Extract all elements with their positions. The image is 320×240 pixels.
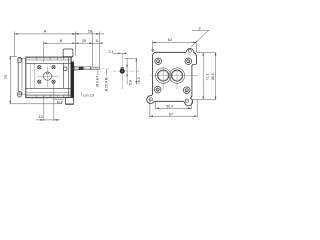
svg-text:5.8: 5.8 xyxy=(129,80,133,85)
svg-text:62: 62 xyxy=(168,37,173,42)
svg-text:50.4: 50.4 xyxy=(166,104,173,108)
svg-text:67: 67 xyxy=(169,112,173,116)
svg-text:Ø 9 H7: Ø 9 H7 xyxy=(96,76,100,87)
svg-text:A: A xyxy=(44,29,47,34)
svg-text:28: 28 xyxy=(88,29,93,34)
svg-text:con 1:8: con 1:8 xyxy=(83,93,94,97)
svg-text:70: 70 xyxy=(3,74,8,79)
svg-text:71.5: 71.5 xyxy=(206,74,210,81)
svg-text:B: B xyxy=(60,38,63,43)
svg-text:16.2: 16.2 xyxy=(137,77,141,84)
svg-text:12: 12 xyxy=(38,114,43,119)
svg-text:Ø 25.4 f8: Ø 25.4 f8 xyxy=(104,77,108,91)
svg-text:86.5: 86.5 xyxy=(211,73,215,80)
svg-text:M 8: M 8 xyxy=(57,101,63,105)
svg-text:20: 20 xyxy=(82,38,87,43)
